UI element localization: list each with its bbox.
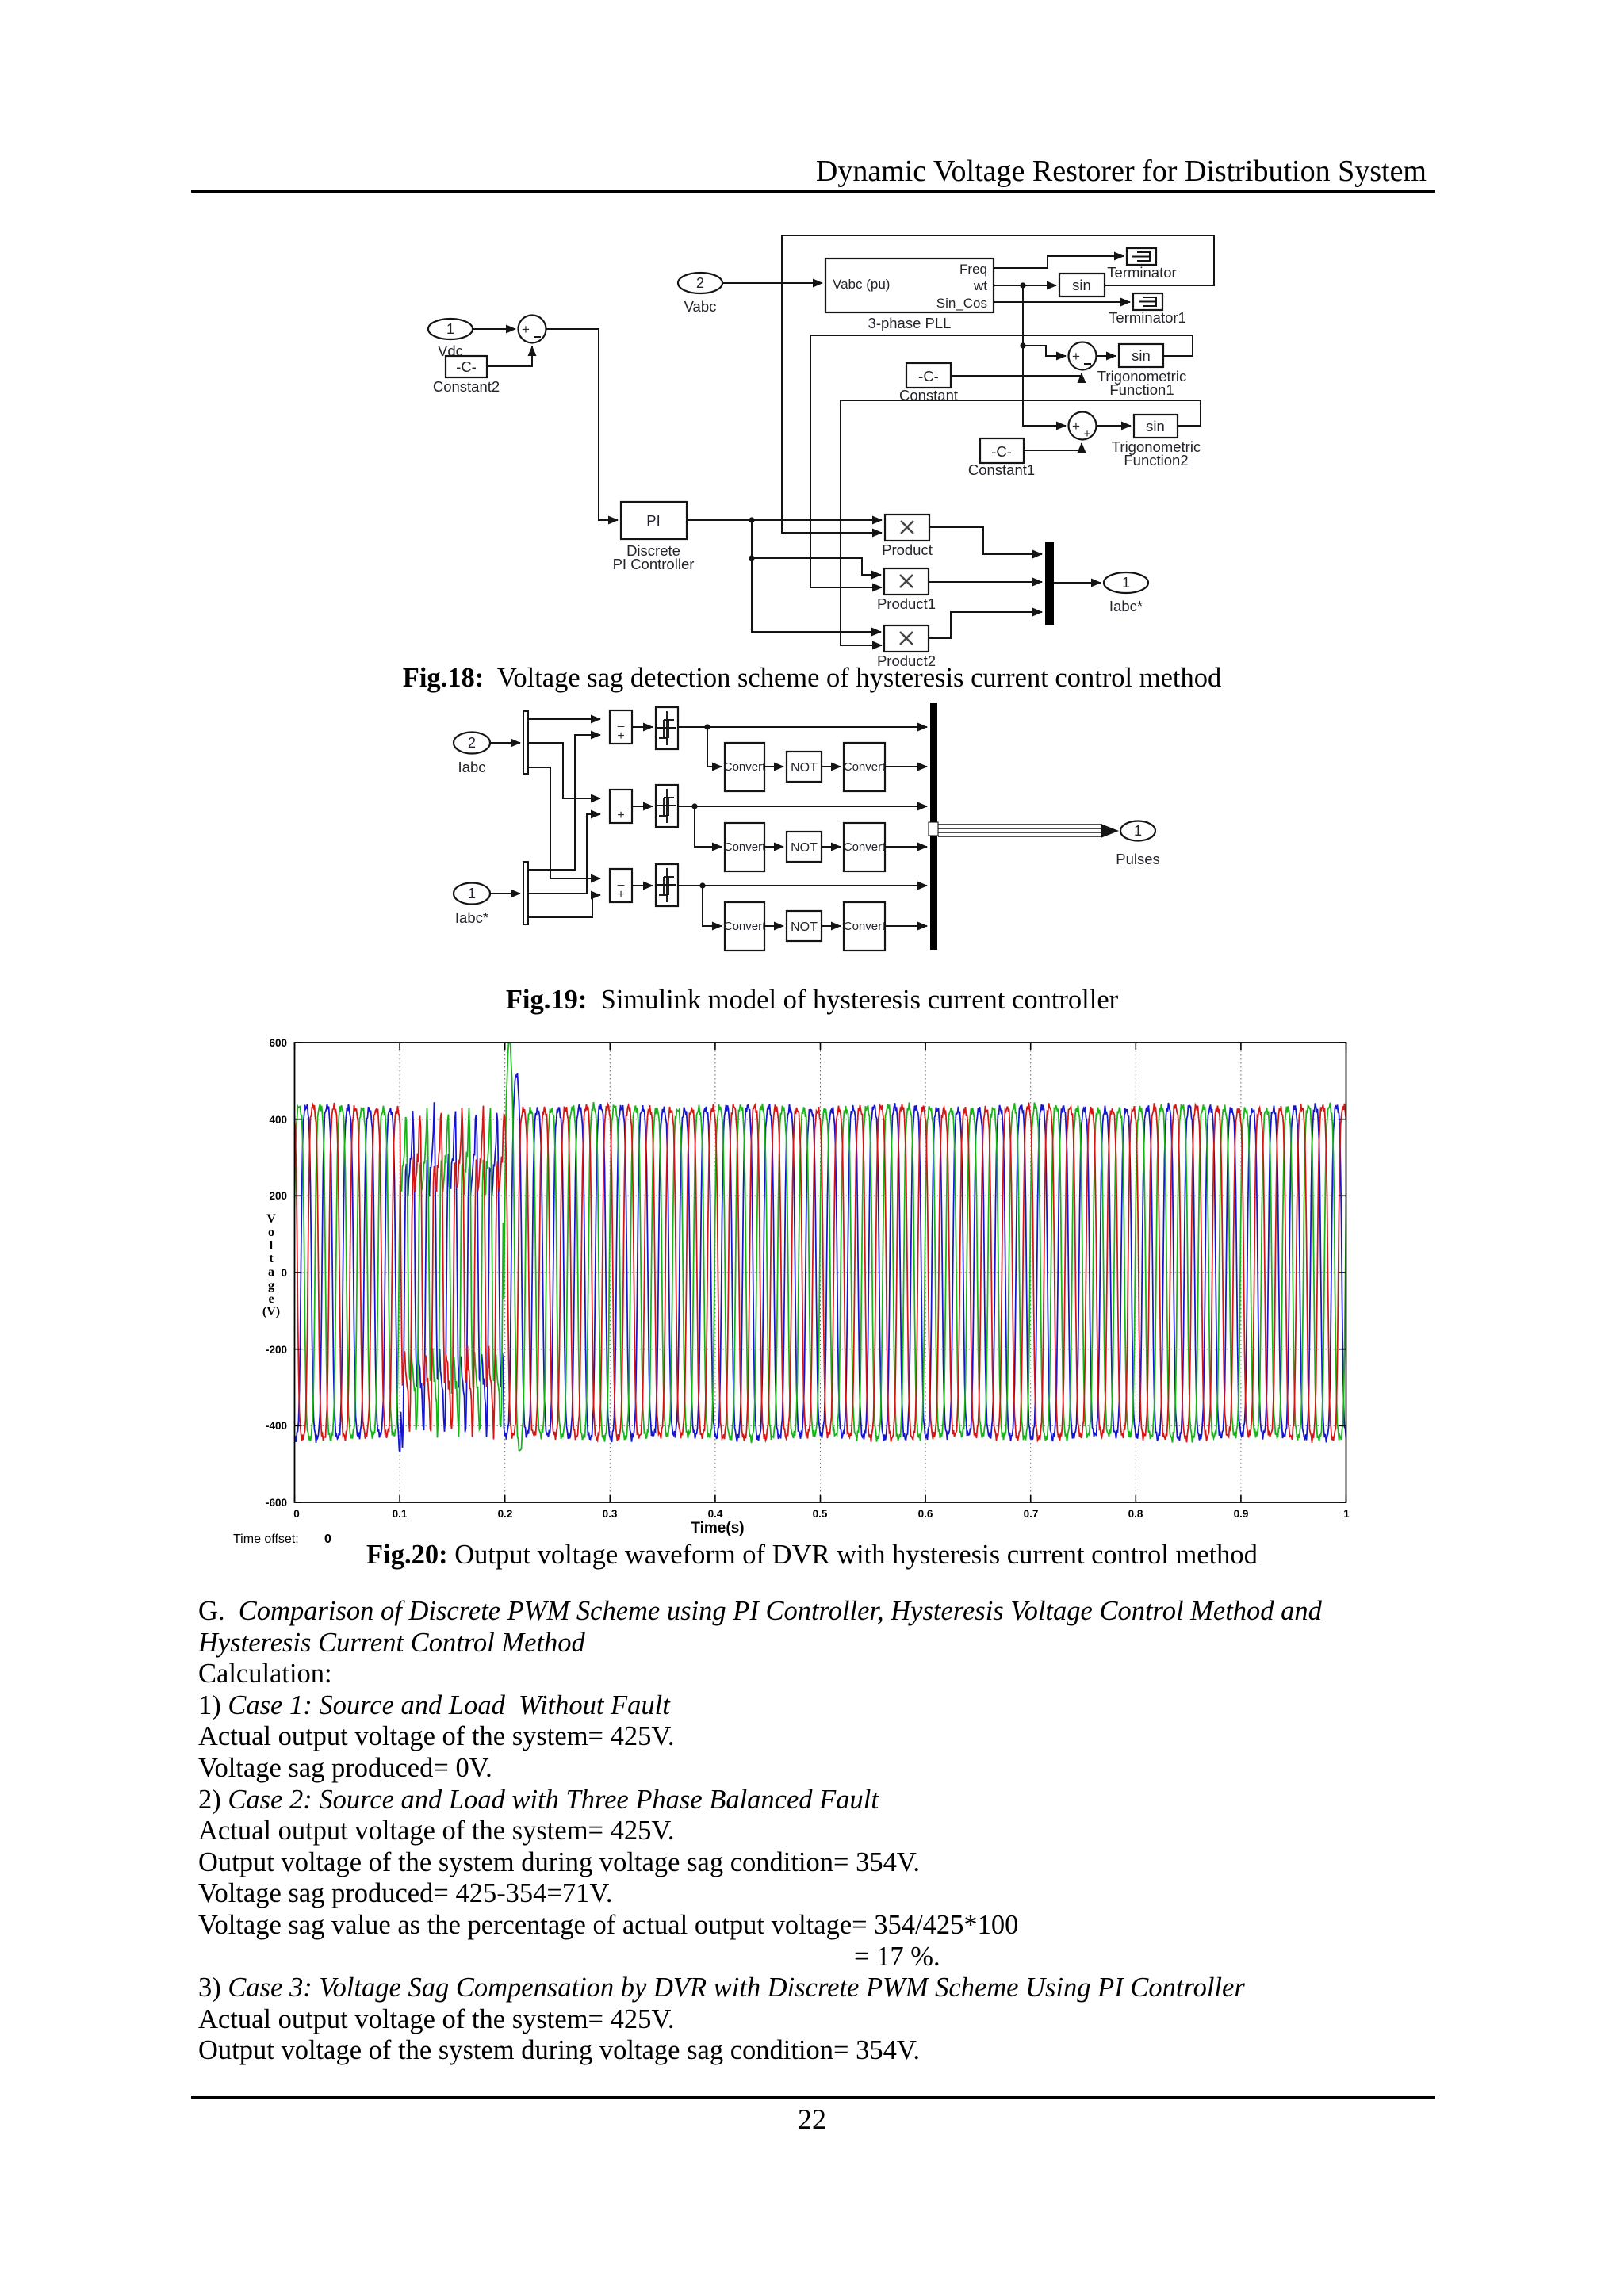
wire Demux1 out3 to Sum2 plus [529,895,600,917]
svg-text:+: + [617,729,624,743]
wire Product1 to Mux [929,581,1042,583]
svg-text:600: 600 [269,1037,287,1049]
svg-text:Vabc: Vabc [684,298,717,315]
svg-text:+: + [522,322,530,337]
demux Demux [523,711,528,774]
svg-text:0: 0 [281,1267,287,1279]
svg-text:Constant2: Constant2 [433,378,500,395]
page number [0,2103,1624,2136]
svg-text:0.3: 0.3 [603,1508,618,1520]
svg-text:0.6: 0.6 [918,1508,933,1520]
wire Relay1 to Mux input [678,806,927,807]
block NOT2 [787,911,822,941]
svg-text:1: 1 [1122,575,1130,591]
svg-text:(V): (V) [262,1305,280,1318]
block Terminator1 [1109,293,1186,326]
svg-text:0.7: 0.7 [1024,1508,1039,1520]
wire NOT to Convert1 [822,766,841,767]
sum junction Sum1 [1069,342,1097,370]
svg-text:g: g [268,1279,274,1292]
relay Relay1 [656,785,678,827]
svg-text:-200: -200 [266,1344,287,1356]
wire Convert to NOT2 [764,925,783,927]
svg-text:-C-: -C- [456,358,477,375]
svg-text:Time(s): Time(s) [691,1520,744,1536]
x tick labels [293,1508,1350,1520]
relay Relay [656,707,678,749]
wire Vabc to PLL [722,282,822,284]
wire Constant1 to Sum2 [1024,443,1082,450]
node Relay1 branch [691,803,697,809]
svg-text:2: 2 [696,275,704,291]
block Convert1 (row 3) [844,902,886,951]
block Trigonometric Function1 sin [1097,344,1186,398]
wire Demux1 out2 to Sum1 plus [529,814,600,894]
page header title [0,154,1427,189]
waveform phase B (blue) [295,1073,1346,1452]
input port 2 Iabc [454,733,490,776]
wire Constant to Sum1 [951,373,1082,376]
svg-text:Function2: Function2 [1124,452,1188,469]
block Trigonometric Function2 sin [1112,415,1201,469]
block Constant [899,363,958,404]
svg-text:0.5: 0.5 [813,1508,828,1520]
input port 1 Vdc [428,319,473,359]
waveform phase C (green) [295,1042,1346,1451]
svg-text:+: + [1072,349,1080,364]
wire branch down to Convert [703,886,722,926]
wire Constant2 to Sum [487,346,532,366]
node Relay2 branch [699,882,705,888]
relay Relay2 [656,864,678,906]
wire NOT2 to Convert1 [822,925,841,927]
block PI Discrete PI Controller [613,502,695,572]
wire Sum to PI controller [546,329,618,520]
sum block Sum1 [610,790,632,823]
mux Mux [1045,542,1054,625]
wire junction down to Product2 first input [752,520,881,632]
wire Sum to Relay [632,726,653,728]
svg-text:-400: -400 [266,1420,287,1432]
svg-text:1: 1 [468,886,476,901]
block Product [882,515,933,558]
sum block Sum2 [610,869,632,902]
sum junction Sum2 [1069,412,1097,442]
block 3-phase PLL [825,258,994,331]
svg-text:400: 400 [269,1114,287,1126]
svg-text:0.4: 0.4 [708,1508,723,1520]
svg-text:2: 2 [468,735,476,751]
svg-text:-600: -600 [266,1497,287,1509]
svg-text:Terminator: Terminator [1107,264,1176,281]
node wt branch [1020,342,1025,348]
wire Product to Mux [929,527,1042,554]
wire branch down to Convert [707,727,722,767]
body text [198,1596,1443,2067]
svg-text:3-phase PLL: 3-phase PLL [868,315,952,331]
block Constant2 [433,356,500,395]
input port 1 Iabc* [454,883,490,927]
svg-text:sin: sin [1132,347,1151,364]
svg-text:Convert: Convert [724,840,766,854]
svg-text:wt: wt [973,278,987,293]
svg-text:Convert: Convert [844,760,886,774]
wire junction to Product1 first input [752,558,881,575]
waveform phase A (red) [295,1103,1346,1443]
svg-text:1: 1 [446,321,454,337]
block Convert (row 3) [724,902,766,951]
wire Convert1 to Mux input [885,925,927,927]
block Convert (row 1) [724,743,766,791]
wire NOT1 to Convert1 [822,846,841,848]
wire Demux1 out1 to Sum plus [529,735,600,870]
sum block Sum [610,710,632,744]
svg-text:Constant1: Constant1 [968,461,1035,478]
plot frame [295,1043,1346,1502]
wire Convert1 to Mux input [885,846,927,848]
wire Relay2 to Mux input [678,885,927,886]
wire Demux out3 to Sum2 minus [529,767,600,878]
svg-text:PI Controller: PI Controller [613,556,695,572]
node PI output junction [749,517,754,522]
svg-text:Convert: Convert [724,920,766,933]
svg-text:Product1: Product1 [877,595,936,612]
block NOT [787,752,822,782]
wire PI to Product first input [687,519,882,521]
grid [295,1043,1346,1502]
svg-text:Pulses: Pulses [1116,851,1160,867]
svg-text:t: t [269,1252,274,1265]
output port 1 Pulses [1116,821,1160,868]
svg-text:1: 1 [1343,1508,1350,1520]
svg-text:a: a [268,1265,274,1279]
svg-text:PI: PI [646,512,660,529]
node junction mid [749,555,754,561]
wire branch down to Convert [695,806,722,847]
wire Trig2 feedback to Product2 second input [841,400,1201,645]
svg-text:NOT: NOT [791,761,818,775]
wire Relay to Mux input [678,726,927,728]
wire Sum2 to Relay2 [632,885,653,886]
svg-text:Function1: Function1 [1109,381,1174,398]
svg-text:Iabc: Iabc [458,759,486,775]
wire Mux to Pulses (signal bundle) [938,825,1102,836]
svg-text:+: + [1072,419,1080,434]
node wt junction [1020,282,1025,288]
svg-text:+: + [1084,427,1091,441]
caption Fig.18 [0,663,1624,694]
wire Product2 to Mux [929,612,1042,638]
svg-text:V: V [266,1212,276,1226]
svg-text:0.9: 0.9 [1234,1508,1249,1520]
svg-text:0.2: 0.2 [498,1508,513,1520]
y tick labels [266,1037,287,1509]
header rule [191,190,1435,193]
wire Mux to output port [1054,582,1101,584]
block Convert1 (row 2) [844,823,886,871]
wire Demux out2 to Sum1 minus [529,743,600,798]
svg-text:e: e [268,1292,274,1306]
sum junction Sum (Vdc minus Constant2) [519,316,546,343]
svg-text:_: _ [617,873,625,886]
wire Vdc to Sum [473,328,515,330]
block Product2 [877,626,936,669]
wire wt down to Sum2 [1023,285,1066,426]
svg-text:Convert: Convert [844,920,886,933]
block Convert (row 2) [724,823,766,871]
caption Fig.20 [0,1540,1624,1571]
wire Convert1 to Mux input [885,766,927,767]
wire Convert to NOT [764,766,783,767]
block Constant1 [968,438,1035,478]
svg-text:-C-: -C- [918,368,939,385]
mux output notch [929,822,938,836]
svg-text:Sin_Cos: Sin_Cos [936,296,987,311]
svg-text:0.8: 0.8 [1128,1508,1143,1520]
mux Mux [930,703,937,950]
input port 2 Vabc [678,273,722,315]
svg-text:1: 1 [1134,823,1142,839]
block Convert1 (row 1) [844,743,886,791]
svg-text:l: l [270,1239,274,1253]
svg-text:Vabc (pu): Vabc (pu) [833,277,890,292]
y axis label Voltage (V) [262,1212,280,1318]
wire Freq to Terminator [994,256,1124,268]
wire port 1 to Demux1 [490,893,520,894]
axis ticks [295,1043,1346,1502]
svg-text:_: _ [617,794,625,807]
svg-text:_: _ [617,714,625,728]
svg-text:Convert: Convert [844,840,886,854]
caption Fig.19 [0,985,1624,1016]
svg-text:sin: sin [1146,418,1165,434]
block NOT1 [787,832,822,862]
node Relay branch [704,724,710,729]
svg-text:NOT: NOT [791,841,818,855]
svg-text:0.1: 0.1 [393,1508,408,1520]
wire wt to sin [994,285,1056,286]
svg-text:NOT: NOT [791,920,818,934]
wire Sum2 to Trigonometric Function2 [1097,425,1131,427]
block Terminator [1107,248,1176,281]
wire wt branch to Sum1 [1023,346,1066,356]
wire sin feedback loop to Product second input [782,235,1214,533]
wire Convert to NOT1 [764,846,783,848]
footer rule [191,2096,1435,2099]
demux Demux1 [523,862,528,924]
block sin (Trigonometric Function) [1059,274,1105,297]
output port 1 Iabc* [1104,572,1148,614]
svg-text:Iabc*: Iabc* [1109,598,1143,614]
svg-text:0: 0 [293,1508,300,1520]
svg-text:o: o [268,1226,274,1239]
svg-text:sin: sin [1072,277,1091,293]
svg-text:Freq: Freq [959,262,987,277]
svg-text:-C-: -C- [991,443,1012,460]
svg-text:200: 200 [269,1190,287,1202]
svg-text:+: + [617,888,624,901]
svg-text:Convert: Convert [724,760,766,774]
svg-text:Terminator1: Terminator1 [1109,309,1186,326]
block Product1 [877,568,936,612]
svg-text:Product: Product [882,541,933,558]
wire Sum1 to Relay1 [632,806,653,807]
wire Demux out1 to Sum minus [529,718,600,720]
wire Trig1 feedback to Product1 second input [810,335,1193,587]
svg-text:Iabc*: Iabc* [455,909,488,926]
wire Sum1 to Trigonometric Function1 [1097,355,1116,357]
svg-text:+: + [617,809,624,822]
wire Sin_Cos to Terminator1 [994,301,1130,303]
wire port 2 to Demux [490,742,520,744]
